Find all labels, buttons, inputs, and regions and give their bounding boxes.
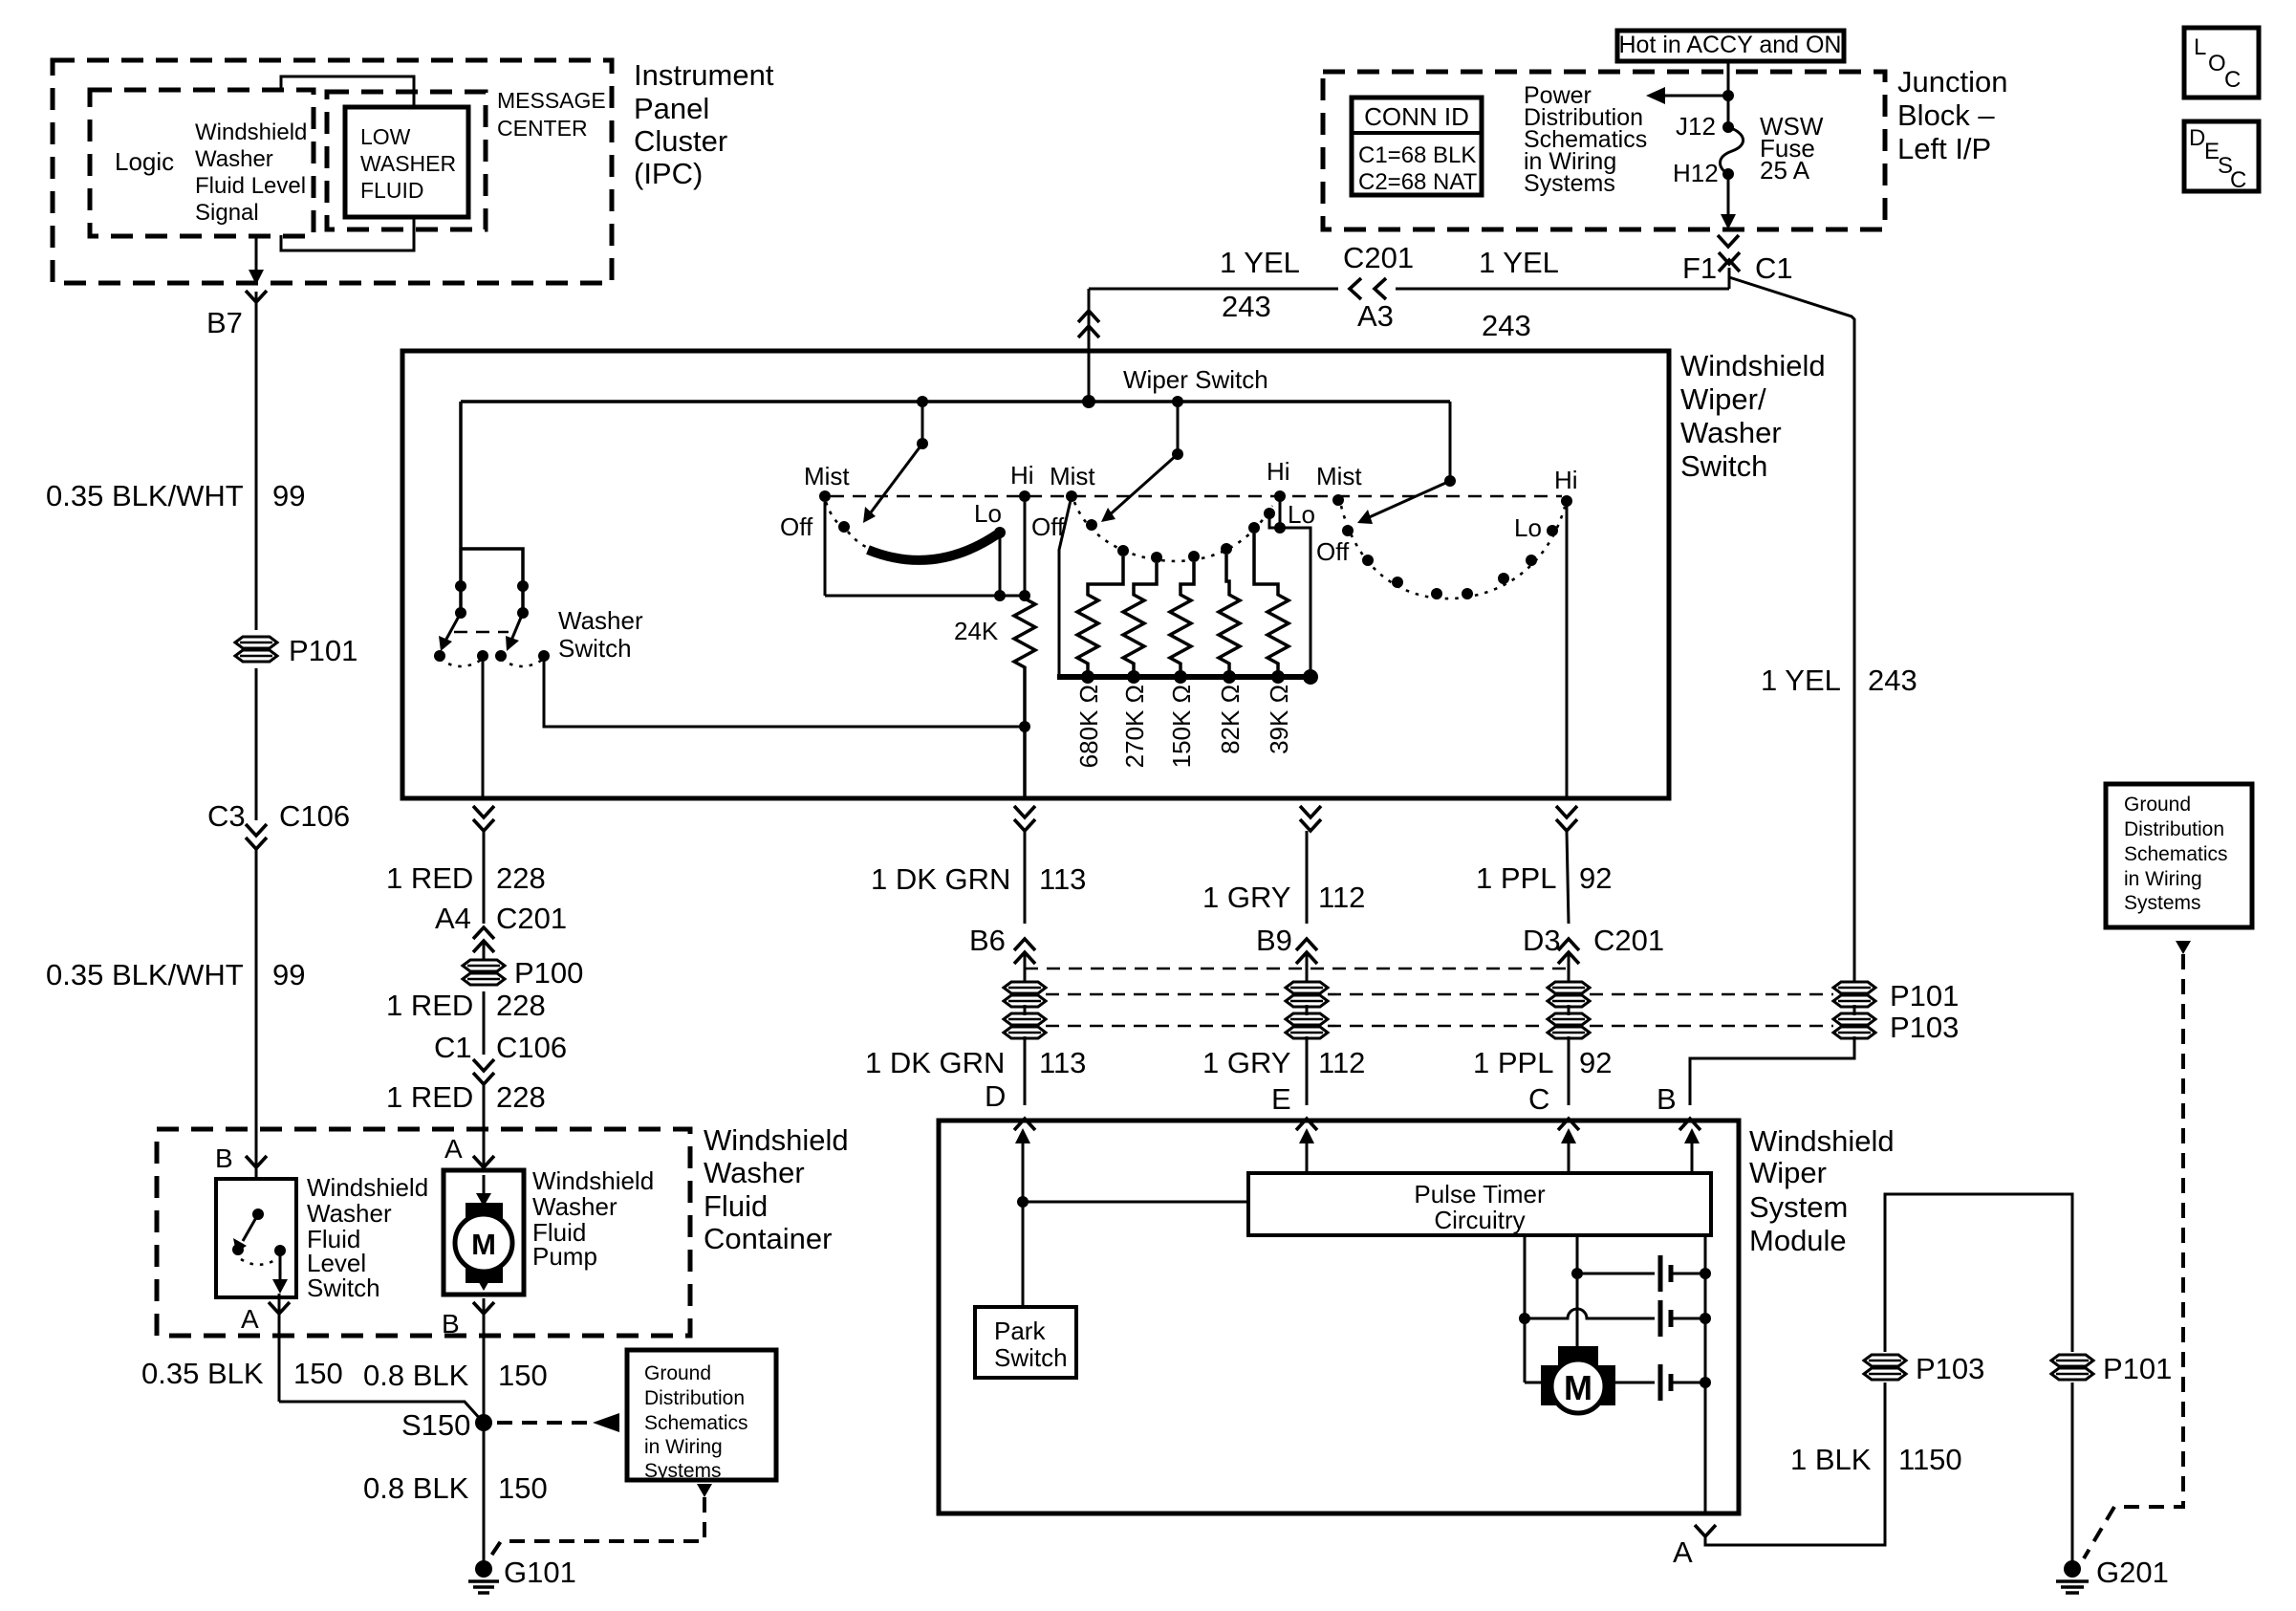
svg-text:1 RED: 1 RED [386, 1080, 473, 1114]
switch 2 off leg [1059, 496, 1072, 677]
svg-text:System: System [1749, 1190, 1848, 1224]
connector row P101 [1046, 993, 1286, 996]
wiper selector dashed position line [831, 495, 1562, 498]
label Windshield Wiper System Module [1749, 1124, 1895, 1257]
svg-text:Panel: Panel [634, 92, 709, 125]
svg-text:Ground: Ground [644, 1362, 711, 1384]
svg-text:Wiper Switch: Wiper Switch [1123, 365, 1268, 394]
svg-text:Ground: Ground [2124, 794, 2191, 816]
svg-text:270K Ω: 270K Ω [1120, 685, 1149, 768]
svg-text:Systems: Systems [2124, 892, 2201, 914]
pin E arrow [1306, 1142, 1309, 1173]
svg-text:25 A: 25 A [1760, 156, 1810, 185]
wire 1 DK GRN 113 lower / pin D [1024, 1036, 1027, 1105]
LOC reference box [2184, 28, 2259, 98]
svg-text:(IPC): (IPC) [634, 157, 703, 190]
svg-text:D: D [985, 1079, 1006, 1113]
svg-text:M: M [1564, 1368, 1592, 1407]
svg-text:C201: C201 [1593, 924, 1664, 957]
svg-text:Module: Module [1749, 1224, 1847, 1257]
svg-text:1 YEL: 1 YEL [1479, 246, 1559, 279]
fuse output arrow at box edge [1727, 174, 1730, 216]
svg-text:Distribution: Distribution [644, 1387, 745, 1409]
MESSAGE CENTER dashed box [327, 92, 486, 229]
svg-text:Windshield: Windshield [1749, 1124, 1895, 1158]
svg-text:Hi: Hi [1554, 466, 1578, 494]
connector break C201 A3 [1350, 278, 1361, 299]
wire red from switch box [473, 806, 494, 817]
module box [939, 1121, 1739, 1513]
connector P101 inline [2051, 1355, 2093, 1380]
svg-text:C1: C1 [1755, 251, 1793, 285]
svg-text:E: E [1271, 1082, 1291, 1116]
svg-text:Wiper: Wiper [1749, 1156, 1827, 1189]
wire 1 PPL 92 [1567, 831, 1569, 924]
box exits chevrons [1014, 806, 1035, 817]
wire 1 YEL to pin B [1690, 1036, 1854, 1105]
svg-text:0.35 BLK: 0.35 BLK [141, 1357, 264, 1390]
svg-text:C: C [2224, 67, 2241, 93]
svg-text:Windshield: Windshield [1680, 349, 1826, 382]
wiper motor M [1541, 1365, 1615, 1405]
wire segments between connector rows [1024, 1005, 1027, 1015]
svg-text:Pump: Pump [532, 1242, 597, 1271]
svg-text:1 PPL: 1 PPL [1473, 1046, 1553, 1079]
svg-text:Windshield: Windshield [195, 120, 307, 145]
svg-text:1 PPL: 1 PPL [1476, 861, 1556, 895]
svg-text:0.8 BLK: 0.8 BLK [363, 1471, 469, 1505]
pin B arrow [1691, 1142, 1694, 1173]
svg-text:CONN ID: CONN ID [1364, 102, 1469, 131]
svg-text:0.8 BLK: 0.8 BLK [363, 1359, 469, 1392]
connector P100 inline [463, 960, 505, 985]
wire from hot feed [1727, 61, 1730, 127]
svg-text:Hi: Hi [1010, 461, 1034, 490]
wire [255, 849, 258, 1179]
svg-text:113: 113 [1039, 1046, 1086, 1079]
ground distribution schematics box (lower) [627, 1350, 776, 1480]
svg-text:Washer: Washer [558, 606, 643, 635]
svg-text:Logic: Logic [115, 147, 174, 176]
svg-text:Switch: Switch [558, 634, 632, 663]
resistor 680K [1077, 556, 1123, 677]
windshield washer fluid level switch box [216, 1179, 296, 1297]
pin A output [1695, 1525, 1716, 1536]
svg-text:150: 150 [498, 1471, 548, 1505]
svg-text:Fluid: Fluid [704, 1189, 768, 1223]
svg-text:99: 99 [272, 479, 305, 512]
svg-text:J12: J12 [1676, 112, 1716, 141]
ground G101 [475, 1560, 492, 1578]
ground distribution schematics box (upper right) [2106, 784, 2252, 927]
svg-text:G101: G101 [504, 1556, 576, 1589]
svg-text:Hi: Hi [1267, 457, 1290, 486]
svg-text:A3: A3 [1357, 299, 1394, 333]
level switch output wire with arrow [279, 1251, 282, 1281]
svg-text:P103: P103 [1890, 1011, 1959, 1044]
svg-text:1150: 1150 [1898, 1443, 1962, 1476]
svg-text:1 BLK: 1 BLK [1790, 1443, 1872, 1476]
svg-text:Circuitry: Circuitry [1434, 1206, 1525, 1234]
splice S150 [475, 1414, 492, 1431]
pin D arrow [1022, 1142, 1025, 1202]
svg-text:99: 99 [272, 958, 305, 991]
svg-text:113: 113 [1039, 862, 1086, 896]
svg-text:C: C [1528, 1082, 1549, 1116]
svg-text:P101: P101 [289, 634, 357, 667]
bus drop to washer switch [459, 402, 463, 549]
svg-text:Instrument: Instrument [634, 58, 774, 92]
ground G201 [2064, 1560, 2081, 1578]
reference arrow below box [697, 1484, 712, 1497]
wire 1 PPL 92 lower / pin C [1568, 1036, 1570, 1105]
svg-text:C3: C3 [207, 799, 246, 833]
dashed reference line to ground distribution note [497, 1421, 591, 1425]
svg-text:Fluid Level: Fluid Level [195, 173, 306, 199]
connector row P103 [1046, 1025, 1286, 1028]
svg-text:Washer: Washer [532, 1192, 617, 1221]
pump motor symbol [483, 1175, 486, 1195]
svg-text:D: D [2189, 125, 2205, 151]
svg-text:Container: Container [704, 1222, 832, 1255]
svg-text:CENTER: CENTER [497, 116, 588, 141]
svg-text:Washer: Washer [195, 146, 273, 172]
svg-text:C2=68 NAT: C2=68 NAT [1358, 169, 1478, 195]
svg-text:Switch: Switch [307, 1274, 380, 1302]
svg-text:Washer: Washer [704, 1156, 805, 1189]
svg-text:Lo: Lo [974, 499, 1002, 528]
svg-text:Left I/P: Left I/P [1897, 132, 1991, 165]
svg-text:Schematics: Schematics [644, 1412, 748, 1434]
Hot in ACCY and ON box [1617, 31, 1844, 61]
label Windshield Washer Fluid Container [704, 1123, 849, 1255]
selector arrow 2 [1177, 402, 1180, 454]
capacitor C-bottom [1615, 1382, 1655, 1384]
svg-text:243: 243 [1222, 290, 1271, 323]
switch 2 contact arc [1074, 502, 1272, 561]
resistor 270K [1123, 563, 1157, 677]
DESC reference box [2184, 121, 2259, 191]
svg-text:Washer: Washer [307, 1199, 392, 1228]
svg-text:243: 243 [1868, 664, 1917, 697]
svg-text:92: 92 [1579, 861, 1612, 895]
wire IPC output B7 with arrow [255, 236, 258, 272]
svg-text:680K Ω: 680K Ω [1074, 685, 1103, 768]
svg-text:1 RED: 1 RED [386, 989, 473, 1022]
svg-text:in Wiring: in Wiring [644, 1436, 723, 1458]
svg-text:A: A [1673, 1535, 1693, 1569]
svg-text:0.35 BLK/WHT: 0.35 BLK/WHT [46, 958, 244, 991]
junction block dashed box [1323, 72, 1885, 229]
svg-text:112: 112 [1318, 1046, 1365, 1079]
svg-text:P100: P100 [514, 956, 583, 990]
svg-text:150: 150 [293, 1357, 343, 1390]
wire loop around LOW WASHER FLUID indicator [281, 76, 414, 109]
svg-text:228: 228 [496, 1080, 546, 1114]
svg-text:F1: F1 [1682, 251, 1717, 285]
svg-text:in Wiring: in Wiring [2124, 868, 2202, 890]
wire 1 BLK 1150 loop [1705, 1382, 1885, 1545]
svg-text:Systems: Systems [1524, 170, 1615, 197]
svg-text:C106: C106 [496, 1031, 567, 1064]
svg-text:82K Ω: 82K Ω [1216, 685, 1245, 754]
svg-text:C201: C201 [1343, 241, 1414, 274]
switch 3 Hi output [1566, 501, 1569, 798]
pin C arrow [1568, 1142, 1570, 1173]
svg-text:LOW: LOW [360, 124, 411, 149]
svg-text:MESSAGE: MESSAGE [497, 88, 606, 113]
svg-text:Junction: Junction [1897, 65, 2007, 98]
svg-text:228: 228 [496, 861, 546, 895]
svg-text:C106: C106 [279, 799, 350, 833]
indicator LOW WASHER FLUID box [345, 107, 468, 217]
svg-text:Mist: Mist [804, 462, 850, 490]
svg-text:Windshield: Windshield [532, 1166, 654, 1195]
svg-text:Windshield: Windshield [704, 1123, 849, 1157]
svg-text:B9: B9 [1256, 924, 1292, 957]
windshield washer fluid pump box [444, 1170, 524, 1295]
svg-text:Distribution: Distribution [2124, 818, 2224, 840]
svg-text:B6: B6 [969, 924, 1006, 957]
svg-text:M: M [471, 1228, 496, 1261]
svg-text:Washer: Washer [1680, 416, 1782, 449]
resistor bottom bus [1057, 674, 1312, 680]
svg-text:Wiper/: Wiper/ [1680, 382, 1766, 416]
wire pump B down to ground [483, 1298, 486, 1566]
wire D to park switch and pulse timer [1017, 1196, 1029, 1208]
selector arrow 3 [1449, 402, 1452, 481]
resistor 24K [1014, 596, 1035, 798]
svg-text:1 GRY: 1 GRY [1202, 1046, 1290, 1079]
park switch box [975, 1307, 1076, 1378]
feeder wire into switch [1088, 289, 1091, 402]
svg-text:C1=68 BLK: C1=68 BLK [1358, 142, 1476, 168]
svg-text:Pulse Timer: Pulse Timer [1414, 1180, 1546, 1208]
switch 3 contact arc [1341, 506, 1565, 599]
label Power Distribution Schematics in Wiring Systems [1524, 82, 1647, 197]
svg-text:1 RED: 1 RED [386, 861, 473, 895]
svg-text:A: A [444, 1134, 463, 1164]
svg-text:Off: Off [1031, 512, 1065, 541]
svg-text:H12: H12 [1673, 159, 1719, 187]
label Windshield Wiper/ Washer Switch [1680, 349, 1826, 483]
resistor 82K [1219, 555, 1240, 677]
svg-text:G201: G201 [2096, 1556, 2169, 1589]
capacitor C-top [1577, 1273, 1655, 1275]
washer switch output to wiper node [544, 660, 1025, 727]
svg-text:P101: P101 [1890, 979, 1959, 1012]
svg-text:L: L [2194, 34, 2206, 60]
resistor 150K [1170, 562, 1194, 677]
label Junction Block - Left I/P [1897, 65, 2007, 165]
svg-text:S150: S150 [401, 1408, 470, 1442]
wire F1 down and branch [1728, 268, 1731, 289]
dashed connector C201 line [1025, 968, 1569, 970]
svg-text:Hot in ACCY and ON: Hot in ACCY and ON [1619, 32, 1842, 58]
svg-text:Mist: Mist [1316, 462, 1362, 490]
svg-text:1 YEL: 1 YEL [1761, 664, 1841, 697]
svg-text:39K Ω: 39K Ω [1265, 685, 1293, 754]
svg-text:A4: A4 [435, 902, 471, 935]
svg-text:228: 228 [496, 989, 546, 1022]
svg-text:24K: 24K [954, 617, 999, 645]
svg-text:Systems: Systems [644, 1460, 722, 1482]
washer switch (two pole) [461, 549, 523, 613]
dashed reference line to G201 [2084, 954, 2183, 1558]
pin B pump [473, 1302, 494, 1314]
svg-text:1 YEL: 1 YEL [1220, 246, 1300, 279]
wire diagonal to right feed [1729, 277, 1854, 984]
switch 2 Hi/Lo wiring [1279, 496, 1282, 528]
svg-text:P103: P103 [1916, 1352, 1984, 1385]
switch 1 wiring [824, 502, 827, 596]
wiper/washer switch box [402, 351, 1669, 798]
svg-text:92: 92 [1579, 1046, 1612, 1079]
svg-text:1 DK GRN: 1 DK GRN [865, 1046, 1005, 1079]
svg-text:1 DK GRN: 1 DK GRN [871, 862, 1010, 896]
label Windshield Washer Fluid Pump [532, 1166, 654, 1271]
resistor 39K [1254, 533, 1289, 677]
svg-text:0.35 BLK/WHT: 0.35 BLK/WHT [46, 479, 244, 512]
wire 1 GRY 112 lower / pin E [1306, 1036, 1309, 1105]
reference arrow below box [2176, 941, 2191, 954]
internal supply bus [461, 400, 1450, 403]
wire B7 down [255, 292, 258, 630]
svg-text:Signal: Signal [195, 200, 259, 226]
svg-text:Lo: Lo [1288, 500, 1315, 529]
svg-text:Switch: Switch [1680, 449, 1767, 483]
svg-text:Park: Park [994, 1317, 1046, 1345]
IPC dashed box [53, 60, 612, 283]
svg-text:Mist: Mist [1050, 462, 1095, 490]
label Instrument Panel Cluster (IPC) [634, 58, 774, 190]
branch arrow to power distribution [1722, 90, 1734, 101]
svg-text:B: B [215, 1143, 233, 1173]
connector chevron below IPC [246, 291, 267, 302]
svg-text:B7: B7 [206, 306, 243, 339]
washer switch output to pump wire [482, 660, 485, 798]
svg-text:150K Ω: 150K Ω [1167, 685, 1196, 768]
label Windshield Washer Fluid Level Signal [195, 120, 307, 226]
svg-text:Switch: Switch [994, 1343, 1068, 1372]
svg-text:Lo: Lo [1514, 513, 1542, 542]
svg-text:112: 112 [1318, 881, 1365, 914]
svg-text:Off: Off [1316, 537, 1350, 566]
connector P103 inline [1864, 1355, 1906, 1380]
wire 1 GRY 112 [1306, 831, 1309, 924]
container dashed box [157, 1129, 690, 1336]
svg-text:Schematics: Schematics [2124, 843, 2228, 865]
selector arrow 1 [921, 402, 924, 444]
svg-text:P101: P101 [2103, 1352, 2172, 1385]
svg-text:243: 243 [1482, 309, 1531, 342]
capacitor C-mid with wire hop [1525, 1309, 1655, 1318]
svg-text:Block –: Block – [1897, 98, 1995, 132]
svg-text:Cluster: Cluster [634, 124, 727, 158]
wiper arm thick arc [868, 534, 997, 560]
Logic dashed box [90, 90, 314, 236]
svg-text:FLUID: FLUID [360, 178, 423, 203]
svg-text:O: O [2208, 51, 2226, 76]
svg-text:WASHER: WASHER [360, 151, 456, 176]
module internal drop wires [1524, 1235, 1527, 1382]
wire 1 YEL 243 horizontal run [1089, 288, 1338, 291]
wire from level switch to S150 [279, 1402, 482, 1421]
wire [255, 668, 258, 820]
pulse timer circuitry box [1248, 1173, 1711, 1235]
svg-text:1 GRY: 1 GRY [1202, 881, 1290, 914]
CONN ID table [1352, 98, 1482, 195]
connector P101 inline [235, 637, 277, 662]
wire 1 DK GRN 113 [1024, 831, 1027, 924]
svg-text:B: B [1657, 1082, 1677, 1116]
svg-text:C: C [2230, 167, 2246, 193]
svg-text:C201: C201 [496, 902, 567, 935]
svg-text:Off: Off [780, 512, 813, 541]
svg-text:150: 150 [498, 1359, 548, 1392]
svg-text:Windshield: Windshield [307, 1173, 428, 1202]
svg-text:A: A [241, 1304, 259, 1334]
svg-text:B: B [442, 1309, 460, 1339]
label Windshield Washer Fluid Level Switch [307, 1173, 428, 1302]
svg-text:D3: D3 [1523, 924, 1561, 957]
level switch contacts [252, 1208, 264, 1220]
svg-text:C1: C1 [434, 1031, 472, 1064]
